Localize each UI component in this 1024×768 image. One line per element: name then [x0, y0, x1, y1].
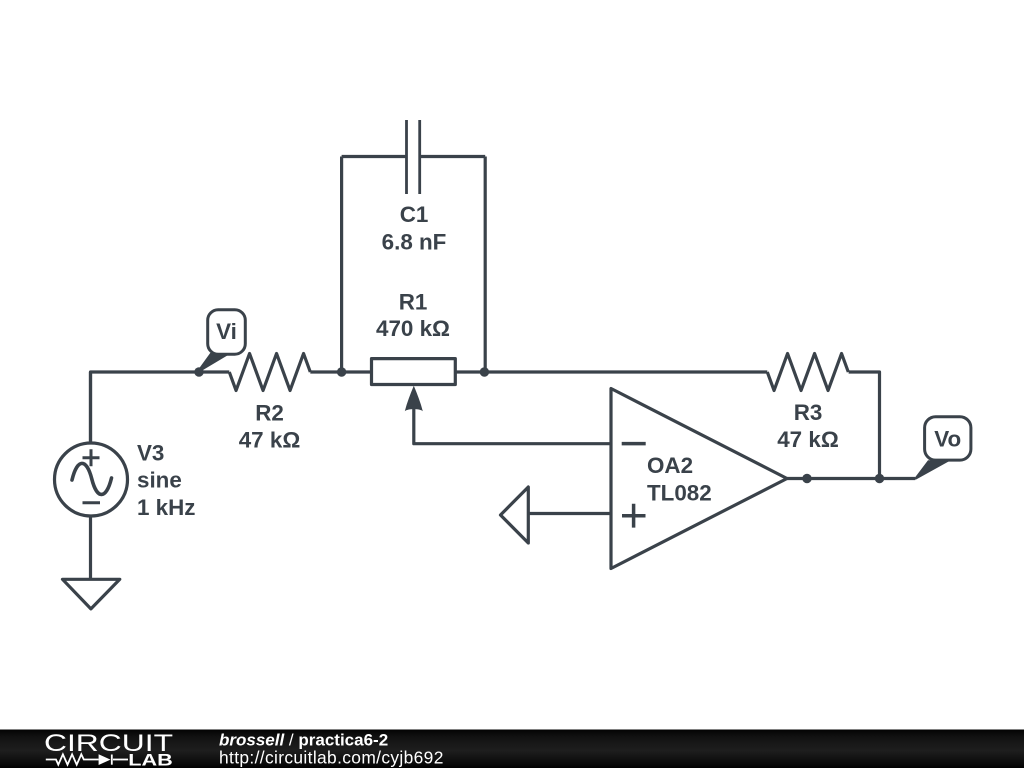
svg-text:LAB: LAB [128, 750, 173, 768]
svg-text:R3: R3 [794, 400, 823, 425]
ground below V3 [63, 579, 120, 609]
svg-text:C1: C1 [400, 202, 429, 227]
wire: V3 bottom lead [89, 516, 92, 579]
wire: C1 loop top left [342, 155, 407, 158]
wire: C1 loop right vertical [484, 157, 487, 373]
svg-text:6.8 nF: 6.8 nF [382, 229, 447, 254]
svg-text:47 kΩ: 47 kΩ [777, 427, 839, 452]
op-amp U1 triangle [611, 389, 787, 569]
wire: op-amp output to Vo [787, 477, 915, 480]
flag Vi pointer [198, 354, 229, 372]
svg-text:1 kHz: 1 kHz [137, 495, 196, 520]
logo resistor squiggle and diode [46, 754, 128, 764]
wire: non-inverting input [528, 512, 611, 515]
op-amp plus input symbol [622, 504, 646, 528]
logo diode triangle [99, 754, 111, 765]
flag Vo pointer [915, 461, 947, 479]
wire: V3 top to Vi node [91, 372, 200, 443]
svg-text:R2: R2 [255, 400, 284, 425]
wire: R3 right, down to output rail [849, 372, 880, 479]
V3 sine symbol [72, 463, 112, 494]
capacitor C1 [407, 120, 420, 194]
svg-text:Vi: Vi [216, 319, 237, 344]
svg-text:brossell / practica6-2: brossell / practica6-2 [219, 730, 388, 749]
wire: R1 wiper to op-amp inverting input [414, 407, 611, 444]
wire: C1 loop left vertical [340, 157, 343, 373]
wire: C1 loop top right [420, 155, 486, 158]
svg-text:OA2: OA2 [647, 453, 693, 478]
svg-text:Vo: Vo [934, 427, 961, 452]
node dot R2/C1 left [337, 367, 346, 376]
node dot feedback [875, 474, 884, 483]
node dot R1/C1 right [480, 367, 489, 376]
wire: R1 to R3 [455, 370, 767, 373]
V3 plus sign [83, 449, 100, 466]
wire: V3 top lead [89, 372, 92, 443]
svg-text:V3: V3 [137, 440, 164, 465]
flag Vi box [208, 310, 246, 355]
node dot Vi [194, 367, 203, 376]
voltage source V3 circle [55, 443, 128, 516]
resistor R3 [767, 354, 848, 391]
wire: Vi node to R2 [199, 370, 229, 373]
svg-text:47 kΩ: 47 kΩ [239, 427, 301, 452]
svg-text:sine: sine [137, 468, 182, 493]
svg-text:TL082: TL082 [647, 480, 712, 505]
flag Vo box [925, 417, 971, 460]
V3 minus sign [83, 501, 101, 504]
wire: R2 to R1 [310, 370, 371, 373]
R1 wiper arrowhead [405, 386, 423, 411]
node dot output [802, 474, 811, 483]
resistor R2 [229, 354, 310, 391]
resistor R1 (potentiometer body) [372, 359, 456, 385]
ground at non-inverting input [501, 487, 529, 543]
svg-text:470 kΩ: 470 kΩ [376, 316, 450, 341]
footer bar [0, 730, 1024, 768]
op-amp minus input symbol [622, 442, 646, 446]
svg-text:http://circuitlab.com/cyjb692: http://circuitlab.com/cyjb692 [219, 748, 444, 768]
svg-text:R1: R1 [399, 289, 428, 314]
